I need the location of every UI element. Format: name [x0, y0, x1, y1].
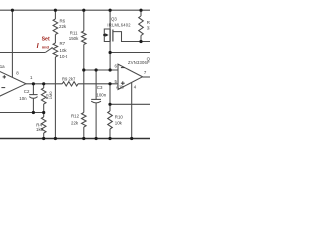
resistor R11	[82, 31, 87, 45]
svg-text:I: I	[37, 43, 40, 50]
node gate-R8 junction	[139, 40, 142, 43]
resistor R9	[62, 82, 78, 86]
resistor R12	[82, 113, 87, 128]
wire R10 bottom lead	[109, 129, 111, 139]
wire top supply rail	[0, 9, 150, 11]
svg-text:R10: R10	[115, 114, 124, 119]
svg-text:A1a: A1a	[0, 64, 5, 69]
node mid node junction	[109, 51, 112, 54]
transistor Q3 arrow	[105, 33, 108, 37]
svg-text:10-t: 10-t	[60, 54, 68, 59]
wire non-inverting node down to R10	[109, 84, 111, 111]
svg-text:33k: 33k	[147, 26, 150, 31]
node y70 junctions	[82, 68, 85, 71]
wire C2 bottom lead	[32, 99, 34, 113]
resistor R7 trimpot	[53, 43, 58, 57]
wire gate net y41.5 to right edge	[113, 32, 150, 42]
svg-text:C3: C3	[97, 85, 103, 90]
svg-text:C2: C2	[24, 89, 30, 94]
svg-text:ZVN3306F: ZVN3306F	[128, 60, 150, 65]
trimpot R7 wiper arrow	[45, 48, 51, 52]
svg-text:R13: R13	[147, 20, 150, 25]
resistor R4	[41, 117, 46, 133]
svg-text:Set: Set	[42, 36, 50, 42]
svg-text:10k: 10k	[115, 121, 123, 126]
svg-text:A1b: A1b	[116, 85, 124, 90]
wire bottom ground rail	[0, 138, 150, 140]
node A1a output junctions	[32, 82, 35, 85]
wire Q3 drain lead down to node	[109, 42, 111, 71]
resistor R3	[41, 88, 46, 104]
svg-text:R7: R7	[60, 41, 66, 46]
resistor R8	[139, 16, 144, 36]
wire A1b output pin7	[143, 76, 151, 78]
svg-text:R6: R6	[60, 19, 66, 24]
resistor R10	[108, 111, 113, 129]
wire feedback net y112.5 from left edge	[0, 112, 44, 114]
wire R3-R4 junction lead	[43, 104, 45, 117]
svg-text:R11: R11	[70, 30, 78, 35]
wire A1b pin4 to ground	[131, 83, 133, 139]
resistor R6	[53, 19, 58, 35]
svg-text:Q3: Q3	[111, 17, 117, 22]
svg-text:22k: 22k	[71, 121, 79, 126]
op-amp U A1b	[118, 64, 143, 89]
op-amp A1b polarity signs	[121, 67, 125, 69]
svg-text:7: 7	[144, 70, 147, 75]
svg-text:6: 6	[115, 64, 118, 69]
wire R11-R12 chain vertical	[83, 10, 85, 31]
svg-text:1k0: 1k0	[36, 127, 44, 132]
node ground rail junctions	[42, 137, 45, 140]
svg-text:mid: mid	[42, 45, 50, 50]
wire sense net y104.3 to right edge	[110, 103, 150, 105]
wire C3 bottom lead	[95, 103, 97, 139]
wire C3 top lead	[95, 70, 97, 99]
wire pin8 supply drop to A1a	[11, 10, 13, 77]
svg-text:5: 5	[115, 79, 118, 84]
svg-text:10n: 10n	[19, 96, 27, 101]
wire inverting input net y70	[84, 69, 118, 71]
svg-text:1M0: 1M0	[48, 91, 53, 100]
svg-text:1: 1	[30, 75, 33, 80]
wire R6-R7 chain vertical	[54, 10, 56, 19]
wire set-Imid wiper from left edge	[0, 52, 45, 54]
svg-text:22k: 22k	[59, 24, 67, 29]
wire A1a output net y83.8	[26, 83, 62, 85]
wire Q3 source lead	[109, 10, 111, 29]
wire R8 leads	[140, 10, 142, 16]
wire R3 top lead	[43, 84, 45, 88]
svg-text:IRLML6402: IRLML6402	[107, 23, 131, 28]
transistor Q3 gate bar	[112, 30, 114, 42]
node top rail junctions	[11, 9, 143, 140]
wire R4 bottom lead	[43, 133, 45, 139]
svg-text:100n: 100n	[96, 92, 106, 97]
node sense junction	[108, 103, 111, 106]
svg-text:R12: R12	[71, 113, 80, 118]
svg-text:150k: 150k	[69, 36, 79, 41]
svg-text:8: 8	[16, 71, 19, 76]
node feedback junctions	[32, 111, 35, 114]
wire mid node right segment	[110, 52, 150, 54]
capacitor C2	[29, 94, 37, 96]
svg-text:4: 4	[134, 84, 137, 89]
wire C2 top lead	[32, 84, 34, 95]
op-amp A1a polarity signs	[3, 76, 6, 78]
transistor Q3 body	[109, 29, 111, 42]
svg-text:10k: 10k	[60, 48, 68, 53]
op-amp U A1a	[0, 71, 26, 97]
capacitor C3	[91, 98, 101, 100]
svg-text:R9 2k7: R9 2k7	[62, 76, 76, 81]
